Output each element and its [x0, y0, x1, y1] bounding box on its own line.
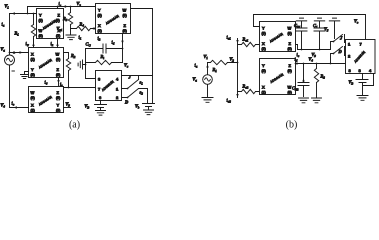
wire V2 rail	[237, 39, 239, 92]
source Va sine	[5, 55, 15, 65]
inverted ground 2	[314, 18, 324, 28]
stub U4 Y node V3	[64, 107, 71, 109]
svg-text:R4: R4	[79, 22, 85, 28]
svg-text:(3): (3)	[262, 32, 266, 36]
svg-text:(5): (5)	[288, 69, 292, 73]
svg-text:s2: s2	[140, 90, 144, 96]
svg-text:ia: ia	[195, 63, 198, 69]
ground at U3 Y	[21, 72, 29, 79]
svg-text:id: id	[112, 40, 115, 46]
svg-text:Y: Y	[39, 13, 42, 18]
wire to pin7	[59, 87, 96, 89]
svg-text:X: X	[31, 52, 34, 57]
wire left rail lower	[9, 66, 11, 108]
wire left rail upper	[9, 14, 11, 55]
svg-text:V4: V4	[309, 57, 314, 63]
svg-text:Y: Y	[262, 63, 265, 68]
arrowhead i_z left	[63, 5, 67, 7]
wire pin4 to rail	[122, 75, 153, 77]
node V2	[237, 62, 239, 64]
resistor R2 from U3 W	[64, 53, 71, 88]
capacitor CB1	[296, 28, 307, 50]
ground under CB2	[299, 98, 309, 103]
svg-text:V5: V5	[324, 27, 329, 33]
wire U1 X to U3 W	[57, 39, 59, 48]
wire V1 horizontal	[10, 13, 37, 15]
svg-text:(6): (6)	[31, 96, 35, 100]
svg-text:W: W	[123, 8, 127, 13]
op-amp CFOA U7 AD844	[260, 59, 296, 95]
wire top rail V2	[28, 6, 96, 8]
svg-text:Y: Y	[57, 103, 60, 108]
wire to pin3	[86, 65, 96, 79]
svg-text:D: D	[338, 49, 343, 54]
op-amp CFOA U4 AD844	[29, 87, 64, 113]
svg-text:ic: ic	[297, 52, 300, 58]
ground at R3 node	[66, 29, 76, 40]
svg-text:(5): (5)	[56, 96, 60, 100]
resistor Ra1	[238, 42, 260, 46]
svg-text:Ra1: Ra1	[242, 37, 249, 43]
resistor Ri	[86, 60, 123, 64]
source Va sine (b)	[203, 75, 213, 85]
svg-text:(6): (6)	[288, 32, 292, 36]
wire U3 Z down	[58, 78, 60, 88]
svg-text:X: X	[262, 41, 265, 46]
wire source to U3 X input	[10, 52, 29, 54]
svg-text:(3): (3)	[56, 109, 60, 113]
svg-text:(2): (2)	[262, 91, 266, 95]
svg-text:Ra2: Ra2	[242, 84, 249, 90]
resistor R1	[31, 14, 35, 48]
inverted ground 1	[296, 18, 306, 28]
op-amp CFOA U2 AD844	[96, 4, 131, 34]
svg-text:V1: V1	[204, 54, 209, 60]
svg-text:D: D	[124, 100, 129, 105]
svg-text:(2): (2)	[262, 47, 266, 51]
svg-text:Vo: Vo	[354, 19, 359, 25]
wire U2 W to right rail	[131, 8, 153, 10]
svg-text:J: J	[339, 36, 343, 41]
svg-text:W: W	[31, 90, 35, 95]
svg-text:i4: i4	[45, 80, 48, 86]
svg-text:Ri: Ri	[100, 54, 105, 60]
ground under source	[202, 85, 213, 103]
node U1 Z tap	[57, 6, 59, 8]
battery VB at pin6	[95, 101, 107, 116]
switch J from pin1	[122, 76, 139, 89]
wire CC-Ri left rail	[85, 49, 87, 65]
resistor R4	[71, 26, 96, 30]
svg-text:R2: R2	[320, 74, 326, 80]
svg-text:io: io	[12, 101, 15, 107]
svg-text:(2): (2)	[31, 58, 35, 62]
svg-text:CC: CC	[86, 42, 92, 48]
arrowhead i_d down	[121, 41, 123, 44]
svg-text:W: W	[39, 28, 43, 33]
wire right rail	[152, 9, 154, 104]
svg-text:Vb: Vb	[135, 104, 140, 110]
svg-text:(2): (2)	[31, 109, 35, 113]
op-amp CFOA U6 AD844	[260, 22, 296, 52]
svg-text:i1: i1	[79, 35, 82, 41]
svg-text:s1: s1	[140, 80, 144, 86]
junction node top	[27, 13, 29, 15]
resistor R1 (b)	[208, 60, 238, 64]
switch J (b)	[334, 35, 346, 43]
capacitor CB2	[298, 64, 309, 97]
svg-text:V1: V1	[5, 4, 10, 10]
svg-text:R1: R1	[14, 31, 20, 37]
svg-text:V2: V2	[230, 57, 235, 63]
op-amp CFOA U3 AD844	[29, 48, 64, 78]
wire U6 Z node V3	[296, 42, 334, 50]
resistor Ra2	[238, 89, 260, 93]
svg-text:W: W	[288, 26, 292, 31]
svg-text:Y: Y	[98, 8, 101, 13]
wire bottom to U4 X	[10, 107, 29, 109]
svg-text:Va: Va	[193, 77, 198, 83]
svg-text:+: +	[13, 51, 15, 55]
svg-text:(6): (6)	[56, 58, 60, 62]
svg-text:V3: V3	[312, 52, 317, 58]
svg-text:(6): (6)	[39, 34, 43, 38]
svg-text:(a): (a)	[69, 120, 80, 131]
switch D (b)	[331, 47, 346, 64]
svg-text:(2): (2)	[98, 29, 102, 33]
svg-text:(3): (3)	[98, 14, 102, 18]
wire feedback top	[254, 15, 366, 40]
battery Vb	[143, 104, 155, 115]
wire U1 Z to rail	[57, 7, 59, 9]
inverted ground 3	[329, 18, 339, 38]
svg-text:(3): (3)	[262, 69, 266, 73]
wire arrowhead i into V1	[12, 12, 15, 14]
svg-text:ia2: ia2	[227, 98, 232, 104]
multiplier U5 AD633	[96, 71, 122, 101]
svg-text:X: X	[262, 85, 265, 90]
multiplier AD633 (b)	[346, 40, 376, 74]
wire U1 W to U3 X	[33, 39, 35, 48]
switch D from pin2	[122, 89, 148, 104]
svg-text:(5): (5)	[123, 29, 127, 33]
node R3 tap	[70, 6, 72, 8]
svg-text:R1: R1	[212, 67, 218, 73]
resistor R2 (b)	[314, 64, 318, 99]
ground sideways	[78, 60, 85, 69]
svg-text:(6): (6)	[288, 91, 292, 95]
svg-text:V4: V4	[1, 103, 6, 109]
wire U2 Z down	[122, 34, 124, 63]
svg-text:iw: iw	[26, 41, 30, 47]
svg-text:(b): (b)	[286, 120, 298, 131]
op-amp CFOA U1 AD844	[37, 9, 64, 39]
svg-text:V3: V3	[66, 102, 71, 108]
svg-text:(2): (2)	[56, 34, 60, 38]
resistor R3	[68, 7, 72, 29]
svg-text:X: X	[98, 23, 101, 28]
capacitor CC	[86, 44, 123, 53]
svg-text:ix: ix	[51, 41, 54, 47]
svg-text:Y: Y	[31, 67, 34, 72]
wire V4 row	[296, 63, 346, 65]
svg-text:R2: R2	[70, 53, 76, 59]
svg-text:ia: ia	[2, 22, 5, 28]
ground under R2	[312, 98, 322, 103]
svg-text:W: W	[288, 85, 292, 90]
svg-text:(5): (5)	[288, 47, 292, 51]
svg-text:(6): (6)	[123, 14, 127, 18]
svg-text:ia1: ia1	[227, 35, 232, 41]
battery VB (b)	[356, 74, 374, 101]
svg-text:VB: VB	[349, 80, 354, 86]
wire source to V1	[207, 63, 209, 75]
wire riser V1 to top rail	[27, 7, 29, 14]
capacitor C1	[314, 28, 325, 50]
current stub i_a2	[237, 92, 239, 98]
svg-text:(3): (3)	[31, 73, 35, 77]
svg-text:Vc: Vc	[124, 63, 129, 69]
svg-text:Y: Y	[262, 26, 265, 31]
svg-text:(5): (5)	[56, 73, 60, 77]
svg-text:W: W	[56, 52, 60, 57]
arrowhead into R4	[91, 27, 95, 29]
svg-text:i2: i2	[98, 36, 101, 42]
svg-text:(3): (3)	[39, 19, 43, 23]
svg-text:X: X	[31, 103, 34, 108]
svg-text:Va: Va	[1, 47, 6, 53]
svg-text:VB: VB	[85, 104, 90, 110]
